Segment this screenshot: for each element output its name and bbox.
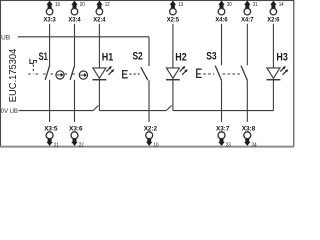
svg-text:UB: UB [1,34,10,41]
S3 push actuator E [197,69,202,77]
svg-text:X3:4: X3:4 [68,16,81,23]
wire X3:4 to S1 contact 2 [74,24,76,66]
node UB bus [18,37,149,66]
S1 actuator linkage vertical [32,64,34,73]
S1 contact 1 blade [45,66,50,80]
bottom frame edge (thick gray) [0,146,294,148]
terminal X3:3 (top, pin 19) [43,1,59,24]
svg-text:10: 10 [154,142,159,148]
switch S3 [197,50,248,122]
S1 contact 2 symbol circle-arrow [79,71,87,79]
svg-text:0V UB: 0V UB [1,108,18,115]
svg-text:30: 30 [227,2,232,8]
wire X3:3 to S1 contact 1 [49,24,51,66]
switch S1 [28,51,88,122]
svg-text:19: 19 [55,2,60,8]
terminal X2:5 (top, pin 13) [167,1,183,24]
terminal X2:2 (bottom, pin 10) [144,126,159,149]
lamp H3 [267,52,289,111]
svg-text:20: 20 [80,2,85,8]
S3 linkage to contact 1 [203,73,214,75]
svg-text:21: 21 [54,142,59,148]
svg-text:X4:7: X4:7 [241,16,254,23]
S2 linkage [129,73,139,75]
S2 push actuator E [123,71,128,78]
terminal X2:4 (top, pin 12) [93,1,109,24]
svg-text:24: 24 [252,142,257,148]
terminal X3:6 (bottom, pin 22) [69,126,84,149]
svg-text:H2: H2 [175,52,186,64]
S1 contact 2 blade [70,66,75,80]
svg-text:H1: H1 [102,52,113,64]
svg-text:31: 31 [253,2,258,8]
svg-text:22: 22 [79,142,84,148]
lamp H1 [93,52,115,111]
S3 contact 2 lower wire [246,80,248,122]
S3 linkage to contact 2 [223,73,241,75]
S2 lower wire to X2:2 [148,80,150,122]
svg-text:X2:6: X2:6 [267,16,280,23]
S1 contact 1 symbol circle-arrow [56,71,64,79]
terminal X3:5 (bottom, pin 21) [44,126,59,149]
terminal X4:6 (top, pin 30) [215,1,231,24]
terminal X2:6 (top, pin 14) [267,1,283,24]
terminal X3:7 (bottom, pin 23) [216,126,231,149]
svg-text:H3: H3 [276,52,287,64]
terminal X3:8 (bottom, pin 24) [242,126,257,149]
wire X2:6 to H3 [272,24,274,68]
svg-text:S2: S2 [133,51,143,63]
terminal X3:4 (top, pin 20) [68,1,84,24]
switch S2 [123,51,149,122]
border frame [1,1,294,147]
S1 linkage to contact 1 [28,73,56,75]
svg-text:EUC.175304: EUC.175304 [8,48,19,102]
svg-text:S1: S1 [39,51,48,63]
S1 contact 1 lower wire [49,80,51,122]
S3 contact 1 blade [215,66,221,81]
wire X2:4 to H1 [98,24,100,68]
S2 contact blade [141,67,148,80]
wire X4:6 to S3 contact 1 [221,24,223,66]
svg-text:X4:6: X4:6 [215,16,228,23]
svg-text:X3:3: X3:3 [43,16,56,23]
S1 contact 2 lower wire [74,80,76,122]
svg-text:X2:4: X2:4 [93,16,106,23]
node 0V UB bus [19,106,274,111]
terminal X4:7 (top, pin 31) [241,1,257,24]
lamp H2 [166,52,188,111]
svg-text:13: 13 [178,2,183,8]
wire X4:7 to S3 contact 2 [246,24,248,66]
svg-text:14: 14 [279,2,284,8]
S3 contact 2 blade [241,66,247,81]
svg-text:23: 23 [226,142,231,148]
S1 turn actuator [30,59,36,64]
svg-text:S3: S3 [206,50,216,62]
svg-text:12: 12 [105,2,110,8]
S3 contact 1 lower wire [221,80,223,122]
wire X2:5 to H2 [172,24,174,68]
S1 linkage to contact 2 [65,73,80,75]
svg-text:X2:5: X2:5 [167,16,180,23]
